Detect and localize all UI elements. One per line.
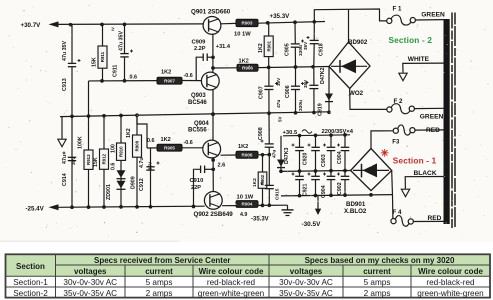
svg-text:100: 100 [110,144,116,153]
svg-text:30v-0v-30v AC: 30v-0v-30v AC [279,278,333,287]
svg-text:Wire colour code: Wire colour code [418,267,483,276]
svg-text:10 1W: 10 1W [237,195,254,201]
svg-text:R907: R907 [164,78,175,83]
svg-text:35V: 35V [148,161,153,170]
svg-text:30v-0v-30v AC: 30v-0v-30v AC [63,278,117,287]
svg-text:-25.4V: -25.4V [26,206,45,213]
svg-text:RED: RED [428,215,442,222]
svg-text:4.9: 4.9 [240,212,247,218]
svg-text:BD902: BD902 [348,39,368,46]
svg-text:Q904: Q904 [194,121,209,127]
svg-text:red-black-red: red-black-red [426,278,475,287]
svg-text:F3: F3 [392,140,400,146]
svg-text:1K2: 1K2 [239,59,249,65]
svg-text:+35.3V: +35.3V [270,13,291,20]
svg-text:GREEN: GREEN [420,114,444,121]
svg-text:Section - 2: Section - 2 [389,36,433,45]
svg-text:Q903: Q903 [191,93,206,99]
svg-text:2 amps: 2 amps [364,289,391,298]
svg-text:R909: R909 [135,140,140,151]
svg-text:15K: 15K [91,57,97,67]
svg-text:35v-0v-35v AC: 35v-0v-35v AC [63,289,117,298]
svg-text:C902: C902 [337,182,343,195]
svg-text:0.6: 0.6 [147,138,155,144]
svg-text:C912: C912 [139,178,145,191]
svg-text:C921: C921 [303,183,309,196]
svg-text:5V: 5V [277,117,282,122]
svg-text:X.BLO2: X.BLO2 [344,208,367,215]
svg-text:green-white-green: green-white-green [417,289,484,298]
svg-text:Q902 2SB649: Q902 2SB649 [194,211,234,218]
svg-text:F 1: F 1 [393,5,402,12]
svg-text:R904: R904 [242,202,253,207]
svg-text:1K2: 1K2 [161,70,171,76]
svg-text:35V: 35V [71,156,76,165]
svg-text:35v-0v-35v AC: 35v-0v-35v AC [279,289,333,298]
svg-text:R906: R906 [242,153,253,158]
svg-text:D909: D909 [131,176,137,189]
svg-text:C911: C911 [112,65,118,77]
svg-text:-0.6: -0.6 [184,140,193,146]
svg-text:Section: Section [16,262,45,271]
svg-text:F 2: F 2 [394,98,403,105]
svg-text:1K2: 1K2 [258,43,264,53]
svg-text:voltages: voltages [74,267,107,276]
svg-text:C904: C904 [321,185,327,198]
svg-text:C913: C913 [62,78,68,91]
svg-text:R912: R912 [102,153,107,164]
svg-text:C920: C920 [303,152,309,165]
svg-text:D47K3: D47K3 [284,147,290,164]
svg-text:Specs received from Service Ce: Specs received from Service Center [94,256,231,265]
svg-text:0.6: 0.6 [130,74,138,80]
svg-text:47u 35V: 47u 35V [119,31,125,51]
svg-text:C903: C903 [321,154,327,167]
svg-text:C909: C909 [192,40,207,46]
svg-text:GREEN: GREEN [421,11,445,18]
svg-text:WHITE: WHITE [408,56,430,63]
svg-text:Section-2: Section-2 [13,289,48,298]
svg-text:-0.6: -0.6 [184,73,193,79]
svg-text:R902: R902 [260,174,265,185]
svg-text:Specs based on my checks on my: Specs based on my checks on my 3020 [305,256,455,265]
svg-text:47u: 47u [271,150,277,158]
svg-text:15K: 15K [93,157,99,167]
svg-text:-35.3V: -35.3V [251,216,269,222]
svg-text:≥: ≥ [112,27,115,33]
svg-text:R906: R906 [242,65,253,70]
svg-text:-30.5V: -30.5V [302,221,322,228]
svg-text:Section - 1: Section - 1 [393,157,437,166]
svg-text:47u: 47u [62,155,68,164]
svg-text:voltages: voltages [290,267,323,276]
svg-text:C904: C904 [337,151,343,164]
svg-text:10 1W: 10 1W [234,32,251,38]
svg-text:C915: C915 [274,188,280,200]
svg-text:C905: C905 [285,43,291,56]
svg-text:current: current [145,267,173,276]
svg-text:35V: 35V [303,41,308,50]
svg-text:C910: C910 [190,178,204,184]
svg-text:R901: R901 [266,40,271,51]
svg-text:2.2P: 2.2P [194,46,206,52]
svg-text:330u: 330u [298,100,304,111]
svg-text:35V: 35V [276,77,281,86]
svg-text:1K2: 1K2 [126,128,132,138]
svg-text:C907: C907 [259,86,265,99]
svg-text:green-white-green: green-white-green [198,289,265,298]
svg-text:red-black-red: red-black-red [207,278,256,287]
svg-text:C908: C908 [258,127,264,140]
svg-text:R903: R903 [242,21,253,26]
svg-text:R911: R911 [100,51,105,62]
svg-text:5 amps: 5 amps [146,278,173,287]
svg-text:47u 35V: 47u 35V [62,41,68,61]
svg-text:1K2: 1K2 [252,178,258,187]
svg-text:R913: R913 [86,154,91,165]
svg-text:BC546: BC546 [188,100,207,106]
svg-text:✳: ✳ [381,149,390,160]
svg-text:+30.7V: +30.7V [21,22,42,29]
svg-text:RED: RED [426,127,440,134]
svg-text:current: current [363,267,391,276]
svg-text:Wire colour code: Wire colour code [199,267,264,276]
svg-text:5 amps: 5 amps [364,278,391,287]
svg-text:WO2: WO2 [349,90,364,97]
svg-text:C914: C914 [62,173,68,186]
svg-text:D47K2: D47K2 [320,67,326,84]
svg-text:F 4: F 4 [393,209,402,216]
svg-text:2.6: 2.6 [218,163,226,169]
svg-text:1K2: 1K2 [238,144,248,150]
svg-text:1K2: 1K2 [161,137,171,143]
svg-text:4.7u: 4.7u [139,157,145,168]
svg-text:BC556: BC556 [188,127,207,133]
svg-text:2 amps: 2 amps [146,289,173,298]
svg-text:+31.4: +31.4 [216,44,231,50]
svg-text:ZD901: ZD901 [106,184,112,200]
svg-text:100K: 100K [78,136,84,149]
svg-text:C919: C919 [317,103,323,116]
svg-text:R910: R910 [119,146,124,157]
svg-text:C918: C918 [319,43,325,56]
svg-text:0.6: 0.6 [110,163,116,170]
svg-text:R905: R905 [164,145,175,150]
svg-text:C906: C906 [285,85,291,98]
svg-text:Section-1: Section-1 [13,278,48,287]
svg-text:22P: 22P [191,185,201,191]
svg-text:47u: 47u [276,100,282,108]
